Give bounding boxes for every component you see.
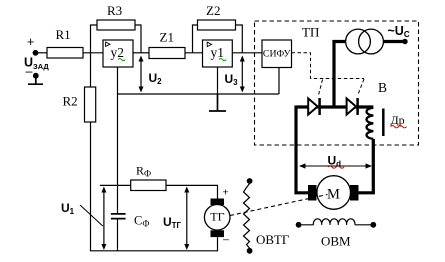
svg-text:ТП: ТП [302, 25, 319, 40]
arrow Utg [184, 187, 189, 251]
label OVM [321, 234, 351, 249]
wire Rf left [100, 184, 131, 186]
op-amp U1 [203, 40, 233, 67]
arrow U1 [101, 187, 106, 251]
resistor R1 [47, 27, 83, 58]
wire junction to Z2 [193, 25, 198, 53]
capacitor Cf [111, 214, 150, 251]
resistor Rf [131, 164, 166, 191]
svg-text:~UC: ~UC [388, 24, 410, 39]
motor M [308, 176, 359, 210]
label Uzad [24, 56, 49, 72]
winding OVTG [244, 178, 253, 254]
svg-text:–: – [26, 65, 33, 79]
dashed box TP [255, 21, 419, 145]
svg-text:Др: Др [391, 113, 405, 127]
svg-text:ОВТГ: ОВТГ [256, 232, 290, 247]
svg-text:ОВМ: ОВМ [321, 234, 351, 249]
label B [378, 80, 387, 95]
inductor Dr core [382, 109, 385, 137]
resistor R2 [63, 87, 96, 122]
svg-text:U2: U2 [149, 71, 163, 86]
thyristor VS1 [308, 98, 319, 115]
arrow Ud [299, 163, 372, 168]
svg-text:–: – [223, 234, 229, 246]
op-amp U2 [103, 40, 133, 67]
node dot Uc [402, 39, 407, 44]
svg-text:Z1: Z1 [160, 30, 174, 45]
label U1 [61, 201, 75, 216]
wire Z2 to output [236, 25, 243, 53]
dashed gate wire to VS1 [318, 80, 322, 96]
svg-text:R3: R3 [107, 3, 122, 18]
svg-text:+: + [27, 35, 34, 49]
svg-text:R2: R2 [63, 94, 78, 109]
svg-text:СИФУ: СИФУ [263, 50, 291, 60]
node plus terminal [27, 35, 34, 49]
arrow U2 [139, 56, 163, 93]
wire common rail [118, 93, 280, 95]
wire thick transformer right [383, 40, 404, 43]
svg-text:R1: R1 [56, 27, 71, 42]
svg-text:RФ: RФ [136, 164, 151, 179]
wire U2 output [133, 52, 149, 54]
node input dot top [33, 50, 39, 56]
label Utg [163, 215, 182, 230]
svg-text:у2: у2 [111, 45, 125, 60]
node input dot bottom [33, 73, 39, 79]
wire R1 to U2 [83, 52, 103, 54]
dashed gate wires from SIFU [292, 53, 365, 79]
svg-text:+: + [223, 186, 229, 198]
wire R3 to output [135, 25, 141, 53]
leader line U1 [80, 205, 103, 226]
wire thick transformer left and center tap [334, 42, 346, 108]
label Dr [391, 113, 407, 128]
wire input to R1 [36, 52, 48, 54]
node minus terminal [26, 65, 33, 79]
svg-text:ТГ: ТГ [210, 210, 224, 224]
wire junction to R3 [91, 25, 98, 53]
block SIFU [262, 40, 292, 68]
arrow U3 [225, 56, 245, 93]
label minus TG [223, 234, 229, 246]
label OVTG [256, 232, 290, 247]
svg-text:U3: U3 [225, 72, 239, 87]
thyristor VS2 [347, 98, 358, 115]
wire U1 bottom pin [217, 67, 219, 94]
wire R2 down to bottom [90, 122, 92, 251]
ground input [28, 76, 43, 85]
ground rail [209, 94, 226, 111]
wire thick anode bus [296, 105, 373, 108]
svg-text:U1: U1 [61, 201, 75, 216]
label Ud [328, 154, 345, 169]
wire thick left drop to motor [295, 106, 310, 195]
wire SIFU bottom to rail [278, 68, 280, 95]
wire bottom rail [90, 237, 218, 251]
transformer [346, 29, 384, 54]
wire Rf to TG [166, 185, 218, 198]
impedance Z2 [198, 3, 236, 30]
dashed gate wire to VS2 [358, 79, 365, 96]
label TP [302, 25, 319, 40]
svg-text:М: М [327, 186, 340, 202]
svg-text:у1: у1 [211, 45, 225, 60]
winding OVM [296, 219, 376, 228]
svg-text:В: В [378, 80, 387, 95]
dashed mechanical link TG to M [230, 195, 328, 216]
wire Z1 to U1 [185, 52, 203, 54]
svg-text:Z2: Z2 [206, 3, 220, 18]
wire junction to R2 [90, 53, 92, 87]
svg-text:UТГ: UТГ [163, 215, 182, 230]
tachogenerator TG [204, 199, 230, 238]
wire thick right drop to motor [358, 139, 375, 194]
resistor R3 [97, 3, 135, 30]
inductor Dr coil [367, 108, 374, 139]
wire U1 output to SIFU [232, 52, 262, 54]
wire U2 bottom pin down to Cf [117, 67, 119, 214]
svg-text:СФ: СФ [134, 214, 149, 229]
impedance Z1 [149, 30, 185, 59]
label plus TG [223, 186, 229, 198]
label ~Uc [388, 24, 410, 39]
